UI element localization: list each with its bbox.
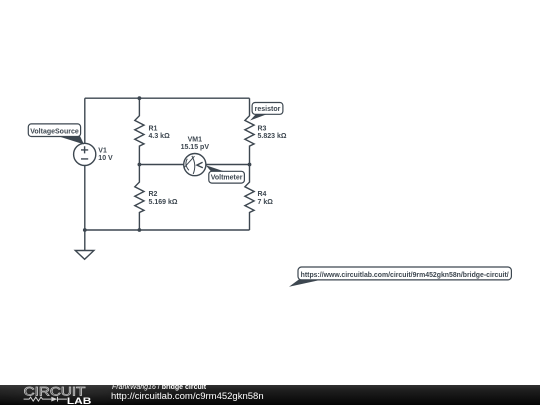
svg-text:R1: R1 — [149, 126, 158, 133]
svg-text:R2: R2 — [149, 191, 158, 198]
svg-text:V1: V1 — [98, 147, 107, 154]
svg-text:15.15 pV: 15.15 pV — [181, 144, 210, 151]
svg-text:4.3 kΩ: 4.3 kΩ — [149, 133, 171, 140]
svg-text:R4: R4 — [258, 191, 267, 198]
svg-text:LAB: LAB — [67, 395, 92, 405]
svg-text:resistor: resistor — [255, 106, 281, 113]
svg-text:Voltmeter: Voltmeter — [211, 175, 243, 182]
svg-text:R3: R3 — [258, 126, 267, 133]
svg-text:VoltageSource: VoltageSource — [30, 128, 79, 135]
svg-text:5.823 kΩ: 5.823 kΩ — [258, 133, 287, 140]
svg-text:5.169 kΩ: 5.169 kΩ — [149, 199, 178, 206]
svg-text:VM1: VM1 — [188, 136, 203, 143]
svg-text:https://www.circuitlab.com/cir: https://www.circuitlab.com/circuit/9rm45… — [301, 272, 509, 279]
svg-text:10 V: 10 V — [98, 155, 113, 162]
svg-text:7 kΩ: 7 kΩ — [258, 199, 274, 206]
